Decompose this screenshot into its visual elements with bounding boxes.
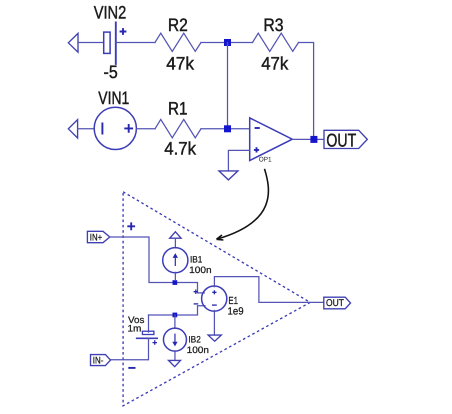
plus input mark (254, 147, 259, 152)
plus mark Vos (153, 340, 158, 345)
wire (116, 42, 155, 44)
controlled source E1 (202, 286, 227, 311)
wire output (292, 138, 324, 140)
node junction IB2/Vos (173, 313, 178, 318)
arrow down terminal IB2 (169, 360, 181, 366)
voltage source VIN1 (94, 107, 136, 149)
plus mark VIN1 (124, 124, 133, 133)
wire noninverting to ground (228, 150, 249, 170)
net arrow (VIN2 left terminal) (68, 33, 78, 52)
svg-text:IN+: IN+ (90, 233, 103, 244)
svg-text:VIN1: VIN1 (98, 88, 129, 108)
arrow up terminal IB1 (170, 232, 181, 238)
wire (148, 315, 150, 332)
svg-text:100n: 100n (189, 265, 211, 275)
svg-text:47k: 47k (261, 53, 289, 73)
wire (201, 128, 250, 130)
svg-text:OP1: OP1 (259, 156, 272, 163)
dashed macro-model triangle (123, 192, 310, 406)
wire (78, 128, 95, 130)
port flag IN+ (87, 231, 109, 242)
node junction IB1 (173, 280, 178, 285)
wire Vos to E1 minus control (149, 306, 206, 315)
svg-text:VIN2: VIN2 (94, 2, 127, 22)
node junction output (310, 136, 317, 143)
op-amp OP1 (250, 118, 293, 161)
svg-text:IB1: IB1 (190, 255, 202, 265)
port flag OUT (model) (324, 297, 351, 309)
svg-text:1e9: 1e9 (228, 306, 244, 317)
wire (174, 272, 176, 280)
voltage source VIN2 (battery) (104, 22, 116, 65)
wire inverting node vertical (227, 43, 229, 129)
wire (201, 42, 253, 44)
svg-text:IB2: IB2 (188, 335, 200, 345)
minus mark VIN1 (101, 123, 103, 135)
wire IN+ to E1 control (110, 237, 205, 293)
minus mark IN- (128, 367, 135, 369)
resistor R2 (155, 33, 201, 51)
resistor R1 (155, 119, 201, 137)
port flag IN- (91, 355, 111, 366)
svg-text:-5: -5 (104, 62, 118, 82)
plus mark E1 control (194, 290, 198, 294)
port flag OUT (324, 130, 367, 148)
wire (136, 128, 155, 130)
wire (174, 238, 176, 248)
svg-text:R3: R3 (263, 15, 283, 35)
svg-text:1m: 1m (128, 323, 142, 334)
svg-text:OUT: OUT (326, 298, 344, 309)
net arrow (VIN1 left terminal) (68, 120, 77, 138)
annotation curved arrow (217, 169, 269, 240)
svg-text:4.7k: 4.7k (164, 138, 197, 158)
plus mark IN+ (127, 222, 135, 230)
svg-text:IN-: IN- (93, 356, 104, 367)
wire (174, 351, 176, 361)
minus input mark (255, 127, 260, 129)
wire feedback (299, 43, 314, 140)
resistor R3 (253, 33, 299, 51)
node junction R2-R3 (224, 39, 231, 46)
current source IB1 (163, 248, 188, 273)
wire (78, 42, 104, 44)
arrow down terminal E1 (208, 335, 221, 341)
wire (174, 315, 176, 328)
minus mark E1 control (194, 303, 199, 305)
wire Vos to IN- (111, 338, 149, 360)
svg-text:OUT: OUT (326, 129, 356, 150)
wire E1 bottom (213, 311, 215, 336)
current source IB2 (163, 328, 186, 351)
ground (219, 171, 238, 180)
voltage source Vos (battery) (136, 331, 158, 338)
wire E1 output to OUT (214, 277, 323, 303)
svg-text:47k: 47k (166, 53, 195, 73)
plus mark VIN2 (120, 28, 127, 35)
svg-text:R2: R2 (168, 15, 188, 35)
svg-text:R1: R1 (168, 98, 188, 118)
node junction inverting input (224, 125, 231, 132)
svg-text:100n: 100n (187, 345, 209, 355)
